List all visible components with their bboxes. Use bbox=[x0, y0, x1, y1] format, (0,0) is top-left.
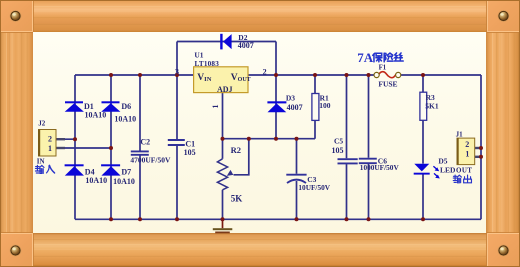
svg-text:F1: F1 bbox=[379, 64, 387, 71]
svg-text:J2: J2 bbox=[38, 119, 46, 127]
svg-text:OUT: OUT bbox=[456, 166, 472, 174]
svg-text:100: 100 bbox=[319, 101, 331, 110]
svg-text:LT1083: LT1083 bbox=[195, 60, 220, 68]
svg-text:105: 105 bbox=[184, 148, 196, 157]
svg-text:105: 105 bbox=[332, 146, 344, 155]
svg-text:C1: C1 bbox=[185, 139, 195, 148]
svg-text:IN: IN bbox=[37, 157, 45, 165]
svg-text:10A10: 10A10 bbox=[85, 176, 107, 185]
svg-text:4700UF/50V: 4700UF/50V bbox=[130, 156, 171, 165]
svg-text:D5: D5 bbox=[438, 156, 447, 165]
svg-text:10UF/50V: 10UF/50V bbox=[298, 183, 330, 192]
svg-text:R2: R2 bbox=[231, 145, 241, 155]
svg-text:2: 2 bbox=[48, 135, 52, 144]
svg-text:10A10: 10A10 bbox=[114, 115, 136, 124]
svg-text:2: 2 bbox=[263, 67, 267, 76]
svg-text:2: 2 bbox=[465, 140, 469, 149]
svg-text:7A: 7A bbox=[357, 50, 374, 65]
svg-text:1: 1 bbox=[465, 149, 469, 158]
svg-text:ADJ: ADJ bbox=[217, 85, 233, 94]
svg-text:1: 1 bbox=[48, 144, 52, 153]
svg-text:1000UF/50V: 1000UF/50V bbox=[360, 163, 400, 172]
svg-text:4007: 4007 bbox=[287, 103, 303, 112]
svg-text:C5: C5 bbox=[334, 136, 343, 145]
svg-text:D6: D6 bbox=[121, 102, 131, 111]
svg-text:U1: U1 bbox=[194, 50, 203, 59]
svg-text:5K1: 5K1 bbox=[425, 101, 439, 110]
svg-text:10A10: 10A10 bbox=[85, 110, 107, 119]
svg-text:D3: D3 bbox=[286, 94, 295, 103]
svg-text:4007: 4007 bbox=[238, 41, 254, 50]
svg-text:FUSE: FUSE bbox=[378, 79, 397, 88]
svg-text:J1: J1 bbox=[456, 130, 464, 138]
svg-text:10A10: 10A10 bbox=[113, 177, 135, 186]
svg-text:5K: 5K bbox=[231, 194, 243, 204]
svg-text:1: 1 bbox=[211, 105, 220, 109]
svg-text:C2: C2 bbox=[140, 137, 150, 146]
svg-text:LED: LED bbox=[440, 165, 456, 174]
svg-text:D7: D7 bbox=[121, 168, 131, 177]
svg-text:3: 3 bbox=[175, 68, 179, 77]
